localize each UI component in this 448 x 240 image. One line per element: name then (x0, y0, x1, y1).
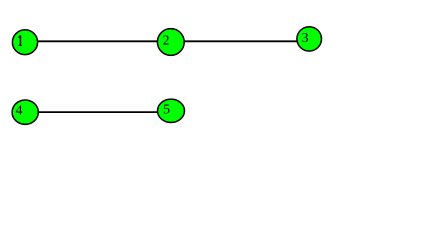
edge 4-5 (25, 111, 171, 113)
node 1 label "1" (18, 35, 22, 46)
edge 1-2 (25, 40, 171, 42)
edge 2-3 (171, 40, 309, 42)
node 5 (158, 99, 185, 122)
node 2 (157, 29, 184, 56)
node 1 (12, 30, 37, 55)
svg-text:4: 4 (16, 104, 23, 119)
svg-text:3: 3 (302, 31, 309, 46)
svg-text:2: 2 (163, 34, 170, 49)
node 3 (297, 27, 322, 51)
svg-text:5: 5 (163, 103, 170, 118)
node 4 (12, 100, 38, 124)
